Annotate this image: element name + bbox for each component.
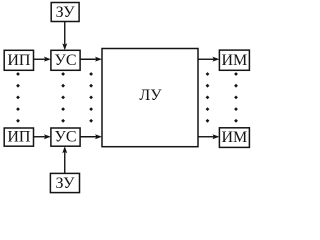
- svg-text:ИМ: ИМ: [222, 52, 248, 69]
- dotted column under IM: [234, 72, 238, 123]
- block IM top (actuator): [219, 50, 249, 70]
- svg-text:ЗУ: ЗУ: [56, 175, 76, 192]
- dotted column under US: [61, 72, 65, 123]
- svg-text:ИМ: ИМ: [222, 129, 248, 146]
- svg-text:ИП: ИП: [7, 129, 31, 146]
- svg-text:ЛУ: ЛУ: [139, 87, 162, 104]
- dotted column between US and LU: [89, 72, 93, 123]
- wire ZU-bottom to US-bottom with arrow (upward): [62, 146, 67, 173]
- block US bottom: [51, 128, 80, 146]
- block ZU bottom: [50, 173, 79, 192]
- wire US-top to LU with arrow: [80, 57, 102, 62]
- block ZU top (storage unit): [51, 3, 79, 22]
- block IP bottom: [4, 128, 33, 146]
- block LU (logic unit, main): [102, 49, 198, 147]
- wire ZU-top to US-top with arrow: [62, 22, 67, 51]
- dotted column under IP: [16, 72, 20, 123]
- svg-text:УС: УС: [55, 129, 77, 146]
- svg-text:ИП: ИП: [7, 52, 31, 69]
- wire IP-top to US-top with arrow: [34, 57, 51, 62]
- wire LU to IM-bottom with arrow: [198, 134, 219, 139]
- wire US-bottom to LU with arrow: [80, 134, 102, 139]
- dotted column between LU and IM: [206, 72, 210, 123]
- block IM bottom: [219, 128, 249, 148]
- wire IP-bottom to US-bottom with arrow: [34, 134, 51, 139]
- wire LU to IM-top with arrow: [198, 57, 219, 62]
- block IP top (sensor): [4, 50, 33, 70]
- svg-text:ЗУ: ЗУ: [56, 4, 76, 21]
- svg-text:УС: УС: [55, 52, 77, 69]
- block US top (matching device): [51, 50, 80, 70]
